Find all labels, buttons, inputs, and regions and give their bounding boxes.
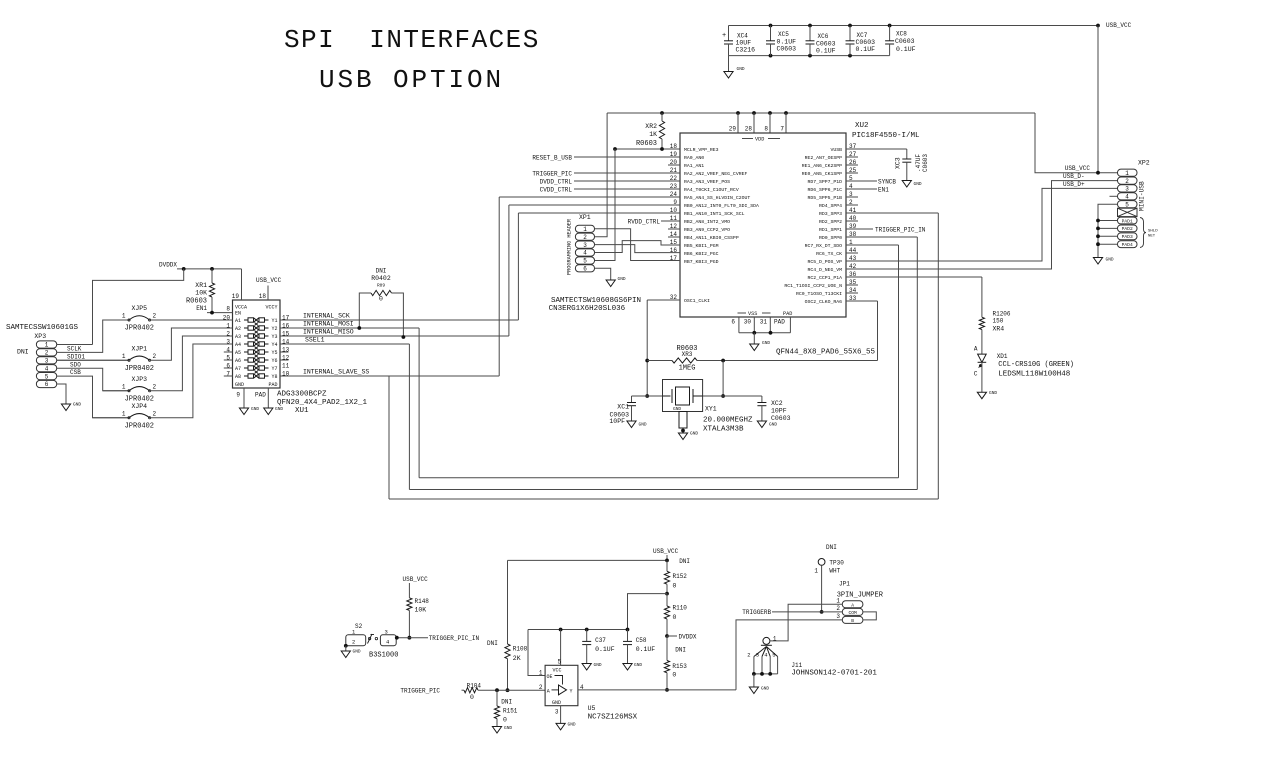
svg-text:RA4_T0CKI_C1OUT_RCV: RA4_T0CKI_C1OUT_RCV xyxy=(684,187,739,193)
svg-text:A: A xyxy=(547,688,550,694)
svg-text:Y7: Y7 xyxy=(271,366,277,372)
svg-text:U5: U5 xyxy=(588,705,596,712)
svg-text:INTERNAL_SCK: INTERNAL_SCK xyxy=(303,313,350,320)
svg-text:A6: A6 xyxy=(235,358,241,364)
ground XP3 pin6 xyxy=(57,384,66,404)
svg-text:USB_VCC: USB_VCC xyxy=(1106,22,1132,29)
svg-text:A3: A3 xyxy=(235,334,241,340)
svg-text:0: 0 xyxy=(470,694,474,701)
svg-text:XU1: XU1 xyxy=(295,407,309,415)
label SYNCB xyxy=(846,180,877,182)
svg-text:PAD1: PAD1 xyxy=(1122,218,1133,224)
connector XP2 shield box xyxy=(1118,208,1138,216)
svg-text:3: 3 xyxy=(836,613,840,620)
svg-text:10K: 10K xyxy=(415,607,427,614)
jumper XJP5 xyxy=(103,319,129,321)
svg-text:DNI: DNI xyxy=(376,268,387,275)
capacitor XC3 .47UF xyxy=(846,148,907,150)
svg-text:2: 2 xyxy=(836,605,840,612)
wire INTERNAL_SLAVE_SS xyxy=(280,375,499,377)
svg-text:GND: GND xyxy=(914,181,922,187)
svg-text:30: 30 xyxy=(744,319,752,326)
svg-text:EN1: EN1 xyxy=(196,305,207,312)
svg-text:2: 2 xyxy=(583,234,587,241)
svg-text:XJP5: XJP5 xyxy=(131,305,147,312)
svg-text:MCLR_VPP_RE3: MCLR_VPP_RE3 xyxy=(684,147,719,153)
svg-text:2: 2 xyxy=(153,383,157,390)
svg-text:+: + xyxy=(722,32,726,40)
svg-text:20.000MEGHZ: 20.000MEGHZ xyxy=(703,417,753,425)
svg-text:2: 2 xyxy=(153,313,157,320)
svg-text:RA1_AN1: RA1_AN1 xyxy=(684,163,704,169)
wire XP1 pin3 to RB6_PGC xyxy=(595,245,681,253)
svg-text:1: 1 xyxy=(122,313,126,320)
svg-text:RD0_SPP0: RD0_SPP0 xyxy=(819,235,842,241)
svg-text:A1: A1 xyxy=(235,318,241,324)
svg-text:XP3: XP3 xyxy=(34,333,46,340)
resistor XR1 10K xyxy=(211,269,213,283)
mcu XU2 right pin names and numbers xyxy=(784,143,856,305)
svg-text:QFN20_4X4_PAD2_1X2_1: QFN20_4X4_PAD2_1X2_1 xyxy=(277,399,368,407)
svg-text:C0603: C0603 xyxy=(922,154,929,172)
svg-text:VCC: VCC xyxy=(553,668,562,674)
svg-text:TRIGGER_PIC_IN: TRIGGER_PIC_IN xyxy=(875,227,926,234)
svg-text:CN3ERG1X6H20SL036: CN3ERG1X6H20SL036 xyxy=(549,305,626,313)
capacitor XC1 10PF xyxy=(631,396,633,403)
svg-text:C0603: C0603 xyxy=(777,46,797,53)
svg-text:6: 6 xyxy=(583,266,587,273)
svg-text:WHT: WHT xyxy=(829,568,840,575)
svg-text:ADG3300BCPZ: ADG3300BCPZ xyxy=(277,391,327,399)
svg-text:PAD: PAD xyxy=(774,319,785,326)
svg-text:R153: R153 xyxy=(672,663,687,670)
svg-text:A8: A8 xyxy=(235,374,241,380)
svg-text:PAD2: PAD2 xyxy=(1122,226,1133,232)
svg-text:2: 2 xyxy=(352,639,355,646)
svg-text:USB_D-: USB_D- xyxy=(1063,173,1085,180)
svg-text:1: 1 xyxy=(45,342,49,349)
svg-text:SCLK: SCLK xyxy=(67,346,82,353)
svg-text:DNI: DNI xyxy=(826,544,837,551)
svg-text:GND: GND xyxy=(737,66,745,72)
svg-text:R108: R108 xyxy=(513,646,528,653)
svg-text:SAMTECTSW10608GS6PIN: SAMTECTSW10608GS6PIN xyxy=(551,297,641,305)
wire cap bank bottom rail xyxy=(729,55,890,57)
wire VDD stubs pins 29 28 8 7 xyxy=(737,113,739,133)
svg-text:C0603: C0603 xyxy=(856,39,876,46)
wire Y riser to JP1 B xyxy=(736,620,842,690)
svg-text:XU2: XU2 xyxy=(855,122,869,130)
svg-text:PAD4: PAD4 xyxy=(1122,242,1133,248)
wire XP3 pin2 SDIO1 to XJP5 xyxy=(57,320,129,352)
svg-text:2: 2 xyxy=(747,652,750,659)
svg-text:GND: GND xyxy=(762,340,770,346)
svg-text:XC8: XC8 xyxy=(896,31,907,38)
svg-text:XD1: XD1 xyxy=(997,353,1008,360)
svg-text:R0603: R0603 xyxy=(636,140,657,148)
svg-text:Y5: Y5 xyxy=(271,350,277,356)
svg-text:XC6: XC6 xyxy=(818,33,829,40)
svg-text:1MEG: 1MEG xyxy=(679,365,696,373)
svg-text:SDO: SDO xyxy=(70,361,81,368)
svg-text:XR3: XR3 xyxy=(682,351,693,358)
svg-text:USB_D+: USB_D+ xyxy=(1063,181,1085,188)
svg-text:CVDD_CTRL: CVDD_CTRL xyxy=(540,187,573,194)
svg-text:RC0_T1OSO_T13CKI: RC0_T1OSO_T13CKI xyxy=(796,291,842,297)
svg-text:GND: GND xyxy=(73,402,81,408)
svg-text:XR4: XR4 xyxy=(993,326,1005,333)
wire XJP4 to A4 xyxy=(150,344,233,418)
svg-text:SPI INTERFACES: SPI INTERFACES xyxy=(284,25,540,55)
ground R151 xyxy=(492,727,501,734)
svg-text:0.1UF: 0.1UF xyxy=(816,48,836,55)
svg-text:1: 1 xyxy=(122,410,126,417)
svg-text:VCCA: VCCA xyxy=(235,305,247,311)
wire XP3 pin3 to XJP1 xyxy=(57,359,129,361)
jumper XJP1 xyxy=(57,359,129,361)
svg-text:RB5_KBI1_PGM: RB5_KBI1_PGM xyxy=(684,243,719,249)
svg-text:OSC2_CLKO_RA6: OSC2_CLKO_RA6 xyxy=(805,299,843,305)
svg-text:Y1: Y1 xyxy=(271,318,277,324)
svg-text:DVDDX: DVDDX xyxy=(159,262,177,269)
connector XP1 programming header xyxy=(575,225,594,272)
svg-text:RD1_SPP1: RD1_SPP1 xyxy=(819,227,842,233)
svg-text:B3S1000: B3S1000 xyxy=(369,652,398,660)
wire XP3 pin5 CSB to XJP4 xyxy=(57,376,129,418)
resistor R110 0 xyxy=(666,594,668,606)
svg-text:RVDD_CTRL: RVDD_CTRL xyxy=(628,219,661,226)
svg-text:RB2_AN8_INT2_VMO: RB2_AN8_INT2_VMO xyxy=(684,219,730,225)
svg-text:8: 8 xyxy=(226,306,230,313)
svg-text:RESET_B_USB: RESET_B_USB xyxy=(532,155,572,162)
svg-text:MINI-USB: MINI-USB xyxy=(1139,181,1146,211)
svg-text:XR1: XR1 xyxy=(195,282,207,289)
svg-text:GND: GND xyxy=(1106,257,1114,263)
svg-text:10UF: 10UF xyxy=(736,40,752,47)
svg-text:RD7_SPP7_P1D: RD7_SPP7_P1D xyxy=(807,179,842,185)
crystal XY1 xyxy=(663,380,703,412)
capacitor XC7 xyxy=(849,26,851,41)
svg-text:RB6_KBI2_PGC: RB6_KBI2_PGC xyxy=(684,251,719,257)
svg-text:Y4: Y4 xyxy=(271,342,277,348)
wire JP1 COM-B bracket xyxy=(863,612,876,620)
svg-text:USB_VCC: USB_VCC xyxy=(1065,165,1091,172)
svg-text:C0603: C0603 xyxy=(816,41,836,48)
svg-text:2: 2 xyxy=(153,410,157,417)
resistor R104 0 xyxy=(462,689,465,691)
svg-text:1: 1 xyxy=(122,353,126,360)
svg-text:PAD: PAD xyxy=(268,382,277,388)
svg-text:1: 1 xyxy=(122,383,126,390)
wire XP1 pin1 to RB7_PGD xyxy=(595,229,681,261)
svg-text:Y6: Y6 xyxy=(271,358,277,364)
wire USB_VCC vertical right xyxy=(1097,26,1099,173)
ground VSS xyxy=(753,333,755,344)
svg-text:RC2_CCP1_P1A: RC2_CCP1_P1A xyxy=(807,275,842,281)
svg-text:Y2: Y2 xyxy=(271,326,277,332)
svg-text:R89: R89 xyxy=(377,283,385,289)
svg-text:2: 2 xyxy=(45,350,49,357)
svg-text:2K: 2K xyxy=(513,655,521,662)
svg-text:XY1: XY1 xyxy=(705,406,717,413)
svg-text:XP1: XP1 xyxy=(579,214,591,221)
svg-text:R110: R110 xyxy=(673,605,688,612)
wire XP3 pin4 SDO to XJP3 xyxy=(57,368,129,391)
svg-text:1K: 1K xyxy=(649,131,657,138)
svg-text:R104: R104 xyxy=(467,683,482,690)
svg-text:0.1UF: 0.1UF xyxy=(595,646,615,653)
connector J11 shield legs xyxy=(747,647,777,676)
wire XJP5 to A1 xyxy=(150,319,233,321)
svg-text:.47UF: .47UF xyxy=(915,154,922,172)
svg-text:RD6_SPP6_P1C: RD6_SPP6_P1C xyxy=(807,187,842,193)
svg-text:VSS: VSS xyxy=(748,311,757,317)
svg-text:RE2_AN7_OESPP: RE2_AN7_OESPP xyxy=(805,155,843,161)
svg-text:DNI: DNI xyxy=(17,349,29,356)
svg-text:EN1: EN1 xyxy=(878,187,889,194)
svg-text:A7: A7 xyxy=(235,366,241,372)
svg-text:0.1UF: 0.1UF xyxy=(856,46,876,53)
svg-text:XC2: XC2 xyxy=(771,400,783,407)
wire INTERNAL_SCK xyxy=(280,319,518,321)
svg-text:XTALA3M3B: XTALA3M3B xyxy=(703,426,744,434)
svg-text:RC5_D_POS_VP: RC5_D_POS_VP xyxy=(807,259,842,265)
resistor R151 0 DNI xyxy=(495,688,499,692)
svg-text:OE: OE xyxy=(547,674,553,680)
svg-text:GND: GND xyxy=(690,431,698,437)
svg-text:VUSB: VUSB xyxy=(830,147,842,153)
svg-text:11: 11 xyxy=(282,362,290,369)
svg-text:XC4: XC4 xyxy=(737,33,748,40)
svg-text:3: 3 xyxy=(385,629,388,636)
wire R152 junction to C58 rail xyxy=(628,594,668,630)
translator XU1 Y5 Y6 stubs xyxy=(280,352,289,360)
svg-text:GND: GND xyxy=(594,662,602,668)
svg-text:DNI: DNI xyxy=(487,640,498,647)
svg-text:NET: NET xyxy=(1148,235,1156,239)
svg-text:18: 18 xyxy=(259,293,267,300)
wire R108 top to USB_VCC junction xyxy=(507,560,509,644)
svg-text:A5: A5 xyxy=(235,350,241,356)
wire SSEL1 xyxy=(280,343,409,345)
ground XP2 shield xyxy=(1098,204,1118,257)
svg-text:INTERNAL_MOSI: INTERNAL_MOSI xyxy=(303,321,354,328)
capacitor C37 xyxy=(586,630,588,642)
resistor R152 0 xyxy=(666,560,668,571)
svg-text:0: 0 xyxy=(673,583,677,590)
svg-text:GND: GND xyxy=(769,422,777,428)
wire XJP3 to A3 xyxy=(150,336,233,391)
svg-text:C37: C37 xyxy=(595,637,606,644)
svg-text:Y3: Y3 xyxy=(271,334,277,340)
capacitor XC8 xyxy=(889,26,891,41)
connector XP2 pin4 stub xyxy=(1110,195,1118,197)
svg-text:0: 0 xyxy=(503,717,507,724)
svg-text:RE0_AN5_CK1SPP: RE0_AN5_CK1SPP xyxy=(802,171,842,177)
svg-text:XR2: XR2 xyxy=(645,123,657,130)
svg-text:XJP1: XJP1 xyxy=(131,345,147,352)
svg-text:A2: A2 xyxy=(235,326,241,332)
svg-text:DVDD_CTRL: DVDD_CTRL xyxy=(540,179,573,186)
svg-text:C0603: C0603 xyxy=(771,415,791,422)
svg-text:GND: GND xyxy=(989,390,997,396)
svg-text:S2: S2 xyxy=(355,623,363,630)
svg-text:0: 0 xyxy=(379,296,383,303)
svg-text:SYNCB: SYNCB xyxy=(878,179,896,186)
connector XP2 pads xyxy=(1118,217,1138,248)
svg-text:PAD3: PAD3 xyxy=(1122,234,1133,240)
resistor R89 DNI R0402 xyxy=(359,293,371,328)
wire XP1 pin2 to VDD rail xyxy=(595,113,608,237)
svg-text:XC1: XC1 xyxy=(617,404,629,411)
connector J11 coax xyxy=(763,637,770,644)
svg-text:6: 6 xyxy=(45,381,49,388)
svg-text:10PF: 10PF xyxy=(771,408,787,415)
node DVDDX bottom xyxy=(665,634,669,638)
svg-text:5: 5 xyxy=(583,258,587,265)
translator XU1 ADG3300 body xyxy=(233,300,281,388)
svg-text:XJP4: XJP4 xyxy=(131,403,147,410)
svg-text:1: 1 xyxy=(583,226,587,233)
wire USB_VCC top rail xyxy=(729,25,1099,27)
svg-text:31: 31 xyxy=(760,319,768,326)
wire TRIGGER_PIC_IN xyxy=(396,637,428,639)
resistor XR3 1MEG xyxy=(647,360,672,362)
svg-text:7: 7 xyxy=(780,126,784,133)
jumper XJP3 xyxy=(103,390,129,392)
svg-text:RD2_SPP2: RD2_SPP2 xyxy=(819,219,842,225)
translator XU1 A5-A8 stubs xyxy=(224,352,233,376)
svg-text:XJP3: XJP3 xyxy=(131,376,147,383)
svg-text:150: 150 xyxy=(993,318,1004,325)
translator XU1 buffer glyphs xyxy=(244,318,269,378)
svg-text:RA3_AN3_VREF_POS: RA3_AN3_VREF_POS xyxy=(684,179,730,185)
svg-text:RD5_SPP5_P1B: RD5_SPP5_P1B xyxy=(807,195,842,201)
svg-text:VCCY: VCCY xyxy=(265,305,277,311)
svg-text:A: A xyxy=(974,346,978,353)
svg-text:GND: GND xyxy=(618,276,626,282)
svg-text:LEDSML118W100H48: LEDSML118W100H48 xyxy=(998,371,1070,379)
capacitor C58 xyxy=(627,630,629,642)
svg-text:5: 5 xyxy=(772,652,775,659)
svg-text:PAD: PAD xyxy=(783,311,792,317)
resistor XR4 150 xyxy=(979,317,984,329)
svg-text:1: 1 xyxy=(836,597,840,604)
svg-text:1: 1 xyxy=(539,670,543,677)
svg-text:JOHNSON142-0701-201: JOHNSON142-0701-201 xyxy=(791,670,877,678)
svg-text:USB_VCC: USB_VCC xyxy=(653,548,679,555)
svg-text:8: 8 xyxy=(764,126,768,133)
wire USB_D- net xyxy=(846,181,1118,269)
svg-text:0.1UF: 0.1UF xyxy=(896,46,916,53)
wire VDD rail xyxy=(607,112,1035,114)
svg-text:SAMTECSSW10601GS: SAMTECSSW10601GS xyxy=(6,324,79,332)
svg-text:RB1_AN10_INT1_SCK_SCL: RB1_AN10_INT1_SCK_SCL xyxy=(684,211,745,217)
svg-text:3: 3 xyxy=(45,358,49,365)
svg-text:GND: GND xyxy=(353,649,361,655)
svg-text:TRIGGER_PIC: TRIGGER_PIC xyxy=(532,171,572,178)
svg-text:COM: COM xyxy=(848,610,857,616)
svg-text:OSC1_CLKI: OSC1_CLKI xyxy=(684,298,710,304)
svg-text:RB0_AN12_INT0_FLT0_SDI_SDA: RB0_AN12_INT0_FLT0_SDI_SDA xyxy=(684,203,759,209)
svg-text:5: 5 xyxy=(45,373,49,380)
connector XP3 body xyxy=(36,341,56,388)
label TRIGGER_PIC_IN right xyxy=(846,228,873,230)
svg-text:CSB: CSB xyxy=(70,369,81,376)
wire OSC1 to crystal xyxy=(647,299,680,301)
svg-text:R1206: R1206 xyxy=(993,311,1011,318)
capacitor XC4 xyxy=(728,26,730,41)
ground XP1 pin6 xyxy=(595,268,611,280)
svg-text:A4: A4 xyxy=(235,342,241,348)
svg-text:DNI: DNI xyxy=(679,558,690,565)
svg-text:USB OPTION: USB OPTION xyxy=(319,65,504,95)
svg-text:TRIGGER_PIC_IN: TRIGGER_PIC_IN xyxy=(429,635,480,642)
svg-text:C58: C58 xyxy=(636,637,647,644)
svg-text:C3216: C3216 xyxy=(736,47,756,54)
svg-text:RA0_AN0: RA0_AN0 xyxy=(684,155,704,161)
svg-text:PIC18F4550-I/ML: PIC18F4550-I/ML xyxy=(852,132,920,140)
resistor R108 2K xyxy=(505,644,510,659)
svg-text:Y: Y xyxy=(569,688,572,694)
wire XP1 pin4 to RB5_PGM xyxy=(595,241,681,253)
svg-text:DNI: DNI xyxy=(501,699,512,706)
svg-text:3: 3 xyxy=(583,242,587,249)
buffer U5 NC7SZ126 body xyxy=(545,665,578,705)
svg-text:3: 3 xyxy=(756,652,759,659)
svg-text:INTERNAL_MISO: INTERNAL_MISO xyxy=(303,329,354,336)
svg-text:RB7_KBI3_PGD: RB7_KBI3_PGD xyxy=(684,259,719,265)
svg-text:CCL-CRS10G (GREEN): CCL-CRS10G (GREEN) xyxy=(998,361,1074,369)
wire SCLK riser to DVDDX xyxy=(93,269,184,345)
ground S2 xyxy=(344,644,348,648)
svg-text:GND: GND xyxy=(761,686,769,692)
svg-text:1: 1 xyxy=(814,568,818,575)
svg-text:EN: EN xyxy=(235,311,241,317)
svg-text:JPR0402: JPR0402 xyxy=(125,365,154,373)
svg-text:SDIO1: SDIO1 xyxy=(67,354,85,361)
svg-text:USB_VCC: USB_VCC xyxy=(256,277,282,284)
ground J11 xyxy=(753,674,755,687)
svg-text:10PF: 10PF xyxy=(609,418,625,425)
capacitor XC6 xyxy=(809,26,811,41)
svg-text:JP1: JP1 xyxy=(839,581,850,588)
svg-text:R0402: R0402 xyxy=(371,275,391,282)
svg-text:R151: R151 xyxy=(503,708,518,715)
mcu XU2 left pin names and numbers xyxy=(670,143,759,304)
svg-text:B: B xyxy=(851,618,854,624)
resistor R148 10K xyxy=(408,589,410,598)
svg-text:3: 3 xyxy=(555,709,559,716)
svg-text:29: 29 xyxy=(729,126,737,133)
svg-text:XC3: XC3 xyxy=(895,157,902,169)
svg-text:GND: GND xyxy=(552,700,561,706)
svg-text:RA2_AN2_VREF_NEG_CVREF: RA2_AN2_VREF_NEG_CVREF xyxy=(684,171,747,177)
wire XP1 pin5 to MCLR xyxy=(595,149,616,261)
svg-text:0.1UF: 0.1UF xyxy=(636,646,656,653)
svg-text:GND: GND xyxy=(235,382,244,388)
svg-text:4: 4 xyxy=(583,250,587,257)
svg-text:RD4_SPP4: RD4_SPP4 xyxy=(819,203,842,209)
wire crystal right node xyxy=(722,361,724,397)
jumper XJP4 xyxy=(93,417,130,419)
svg-text:NC7SZ126MSX: NC7SZ126MSX xyxy=(588,714,638,722)
wire INTERNAL_MOSI xyxy=(280,327,419,329)
svg-text:C0603: C0603 xyxy=(895,38,915,45)
capacitor XC5 xyxy=(770,26,772,41)
svg-text:GND: GND xyxy=(275,406,283,412)
svg-text:10K: 10K xyxy=(195,290,207,297)
